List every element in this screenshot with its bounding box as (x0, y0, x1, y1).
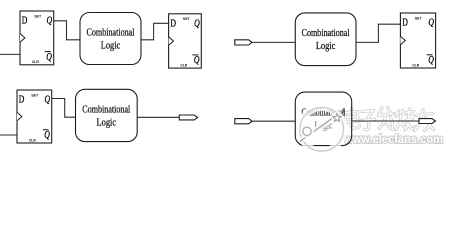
wire FF4.Q to CL3 input (52, 99, 76, 118)
watermark logo small circle (303, 127, 311, 135)
io port OUT2 (419, 119, 436, 124)
svg-text:D: D (22, 16, 28, 27)
svg-text:Combinational: Combinational (302, 28, 350, 39)
svg-text:Logic: Logic (97, 118, 117, 129)
FF2 clock triangle (169, 37, 174, 46)
wire CL1 output to FF2.D (141, 23, 169, 40)
svg-text:Q: Q (47, 16, 53, 27)
wire FF1.Q to CL1 input (54, 21, 80, 40)
watermark logo needle line (300, 117, 334, 142)
svg-text:Q: Q (428, 18, 434, 29)
watermark character dian (electric) (346, 109, 360, 129)
svg-text:SET: SET (183, 17, 191, 21)
flip-flop FF3 body (400, 13, 435, 68)
svg-text:D: D (170, 18, 176, 29)
svg-text:D: D (19, 95, 25, 106)
svg-text:Q: Q (44, 130, 50, 141)
combinational logic block CL3 (76, 89, 138, 141)
svg-text:www.elecfans.com: www.elecfans.com (343, 134, 443, 146)
watermark character you (friend) (415, 110, 434, 131)
svg-text:SET: SET (31, 93, 39, 97)
svg-text:CLR: CLR (180, 64, 188, 68)
io port IN1 (235, 40, 252, 45)
wire clock stub into FF1 (0, 53, 20, 55)
flip-flop FF2 body (169, 14, 202, 68)
watermark character fa (emit) (379, 108, 395, 130)
svg-text:SET: SET (415, 16, 423, 20)
svg-text:CLR: CLR (32, 60, 40, 64)
svg-text:CLR: CLR (412, 63, 420, 67)
svg-text:Logic: Logic (101, 41, 121, 52)
wire CL2 output to FF3.D (356, 24, 400, 42)
svg-text:Q: Q (194, 55, 200, 66)
svg-text:D: D (402, 18, 408, 29)
watermark character shao (burn) (396, 109, 415, 130)
svg-text:Q: Q (45, 95, 51, 106)
svg-text:CLR: CLR (29, 138, 37, 142)
combinational logic block CL4 (295, 92, 351, 146)
io port IN2 (235, 119, 252, 124)
wire CL3 output to OUT1 (137, 116, 179, 118)
FF3 clock triangle (400, 36, 405, 45)
watermark character zi (child) (361, 111, 375, 130)
FF4 clock triangle (17, 112, 22, 121)
svg-text:SET: SET (34, 14, 42, 18)
flip-flop FF1 body (20, 11, 54, 65)
FF1 clock triangle (20, 34, 25, 43)
svg-text:Q: Q (46, 52, 52, 63)
watermark logo big circle (300, 108, 344, 152)
watermark logo star (333, 113, 342, 121)
svg-text:Logic: Logic (316, 41, 336, 52)
io port OUT1 (179, 115, 197, 120)
svg-text:Combinational: Combinational (82, 105, 130, 116)
combinational logic block CL2 (295, 13, 356, 66)
flip-flop FF4 body (17, 90, 52, 143)
wire IN1 to CL2 input (252, 41, 295, 43)
wire CL4 output to OUT2 (352, 120, 419, 122)
wire clock stub into FF4 (0, 134, 17, 136)
combinational logic block CL1 (80, 13, 141, 65)
svg-text:Q: Q (428, 55, 434, 66)
wire IN2 to CL4 input (252, 120, 295, 122)
svg-text:Q: Q (194, 18, 200, 29)
svg-text:Combinational: Combinational (87, 28, 135, 39)
